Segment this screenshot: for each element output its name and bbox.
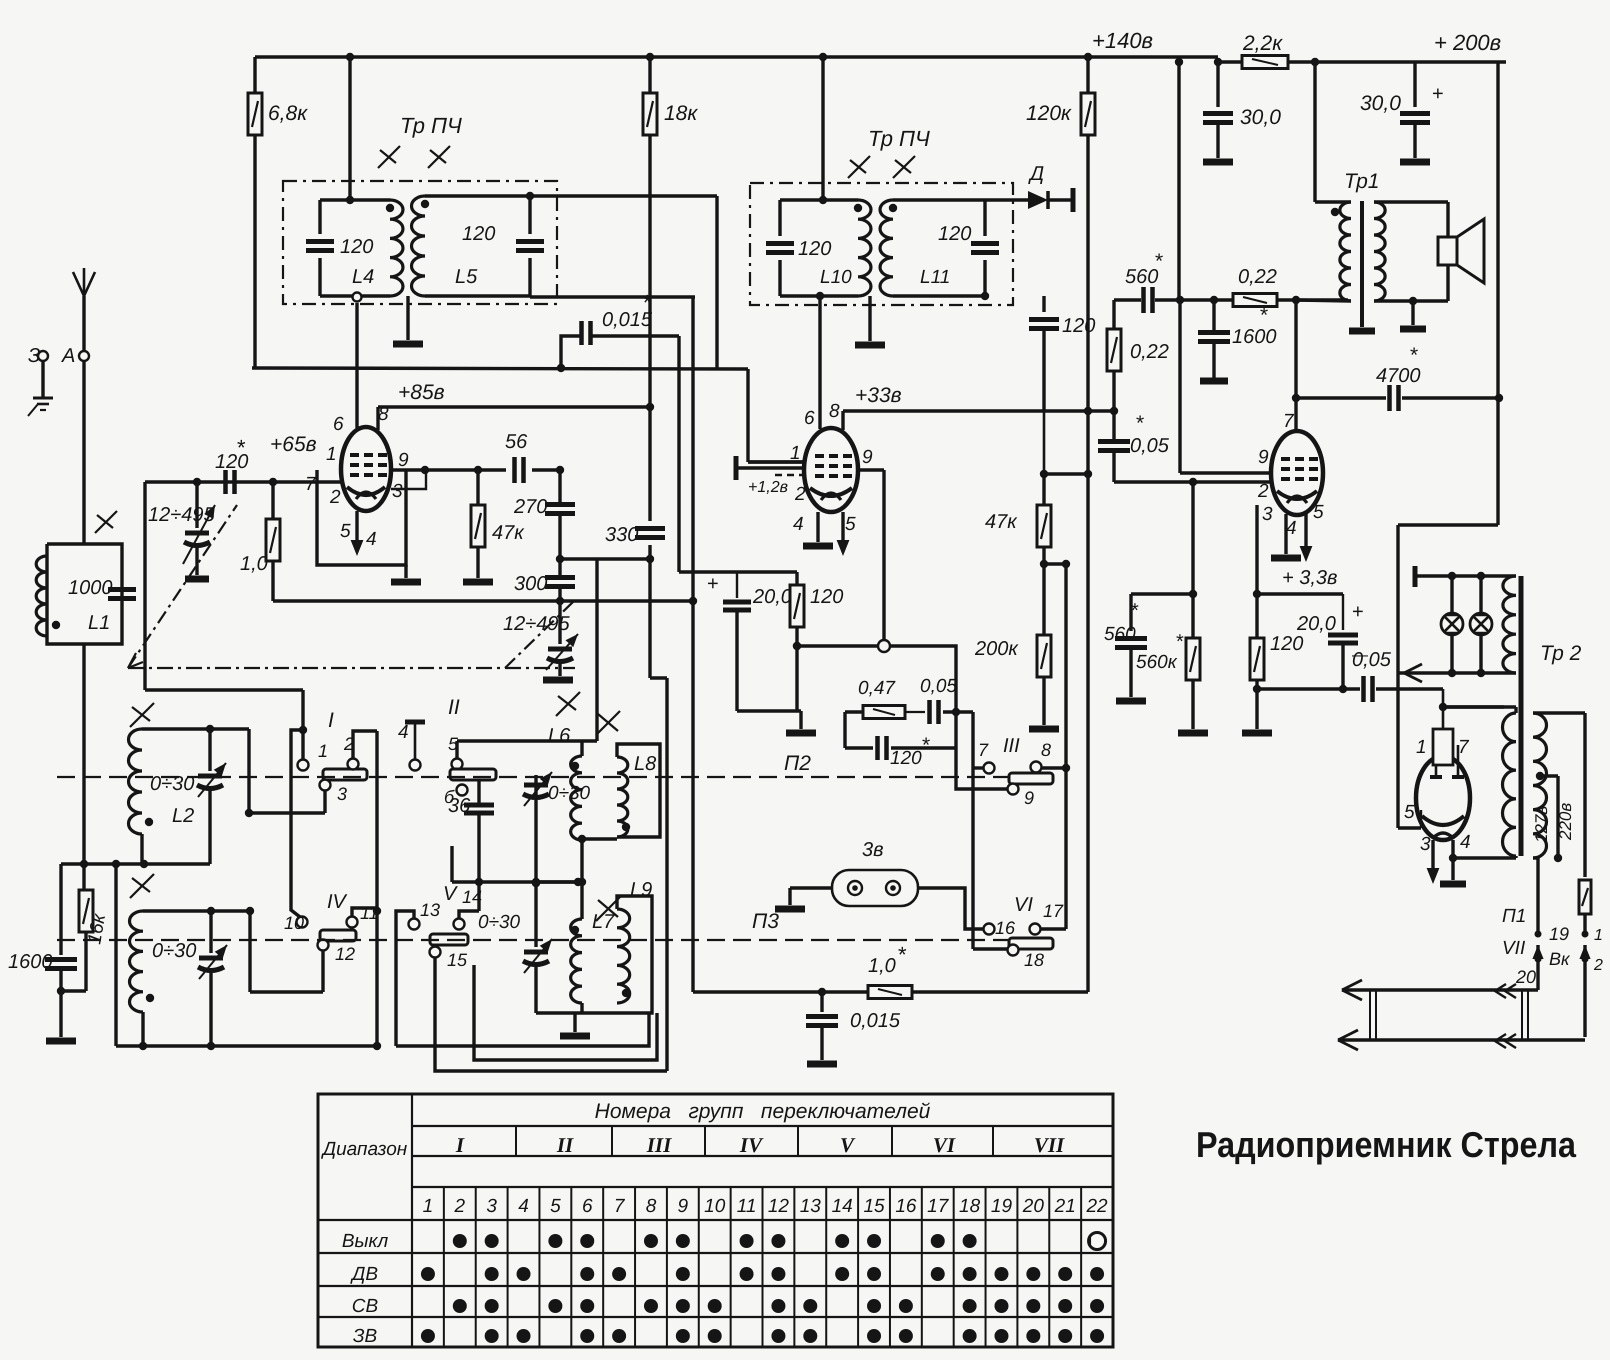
wire right edge down (1496, 62, 1499, 398)
svg-text:L8: L8 (634, 753, 656, 775)
wire Tr2 primary bottom (1453, 856, 1516, 859)
svg-text:V: V (443, 883, 458, 905)
table special mark col22 (1089, 1233, 1106, 1250)
wire cathode bottom y=689 (1257, 687, 1343, 690)
capacitor 330 in AGC drop (648, 408, 651, 521)
wire grid feed (1442, 689, 1445, 729)
svg-text:18: 18 (959, 1196, 981, 1217)
svg-text:Номера групп переключателе: Номера групп переключателей (595, 1100, 931, 1123)
svg-text:*: * (1131, 600, 1139, 622)
wire +85v line (378, 405, 650, 408)
wire 560 line y=300 (1114, 298, 1141, 301)
svg-text:20,0: 20,0 (752, 586, 792, 608)
wire wiper to 0,47 (890, 646, 956, 712)
svg-text:1: 1 (318, 741, 328, 761)
wire 0,22h to 4700 riser (1294, 300, 1297, 398)
svg-text:2: 2 (1593, 957, 1603, 974)
svg-text:П1: П1 (1502, 906, 1526, 927)
switch gang dashed line P2 (57, 776, 1008, 778)
svg-text:56: 56 (505, 431, 528, 453)
wire Tr1 secondary top to speaker (1374, 200, 1448, 203)
tube1 plate line with cap 56 (391, 468, 506, 471)
svg-text:1: 1 (423, 1196, 434, 1217)
wire L5 top to tube2 grid (530, 194, 717, 197)
svg-text:19: 19 (991, 1196, 1013, 1217)
capacitor 120* parallel (845, 746, 873, 749)
table horizontal lines (412, 1125, 1113, 1127)
svg-text:0÷30: 0÷30 (478, 912, 521, 933)
svg-text:17: 17 (1043, 901, 1064, 921)
trimmer arrows IFT2 (848, 156, 870, 178)
svg-text:560: 560 (1125, 266, 1158, 288)
coil L3 (130, 911, 144, 1012)
resistor 0,22 horizontal (1233, 294, 1277, 307)
capacitor 120* grid (223, 470, 228, 494)
svg-text:9: 9 (678, 1196, 689, 1217)
svg-text:6: 6 (804, 408, 815, 429)
svg-text:Выкл: Выкл (342, 1231, 389, 1252)
wire heater drop to tube4 pin5 (1396, 525, 1399, 828)
plug cable left (1369, 990, 1371, 1040)
cathode arrow tube2 (841, 512, 844, 550)
ground IFT1 (406, 296, 409, 340)
svg-text:VII: VII (1502, 938, 1526, 959)
svg-text:19: 19 (1549, 924, 1569, 944)
wire tube4 pin3 arrow (1431, 840, 1434, 878)
svg-text:3: 3 (1262, 504, 1273, 525)
svg-text:120: 120 (810, 586, 843, 608)
svg-text:1,0: 1,0 (240, 553, 268, 575)
plug line top (1342, 988, 1538, 991)
wire tube4 pin4 ground (1451, 840, 1454, 858)
wire 474 to 1088 (1044, 472, 1088, 475)
coil Tr1 secondary (1374, 202, 1385, 301)
ground Tr1 secondary (1411, 301, 1414, 325)
svg-text:0,22: 0,22 (1238, 266, 1277, 288)
wire wiper left (797, 644, 878, 647)
tube2 cathode ground (816, 512, 819, 542)
svg-text:0,015: 0,015 (850, 1010, 901, 1032)
svg-text:L5: L5 (455, 266, 478, 288)
svg-text:120: 120 (890, 748, 922, 769)
L3 tank top (143, 909, 250, 912)
resistor 6.8k (253, 57, 256, 93)
terminal bar heater line (1413, 566, 1418, 587)
svg-text:2: 2 (1257, 481, 1269, 502)
wire 1179 drop to 560 line (1177, 57, 1180, 300)
capacitor 560* grid (1129, 594, 1132, 631)
coil L2 (129, 729, 143, 834)
svg-text:*: * (1155, 250, 1163, 273)
svg-text:7: 7 (1283, 411, 1295, 432)
diagonal to trimmer2 (505, 600, 575, 668)
wiper terminal circle (878, 640, 890, 652)
junction grid (269, 478, 277, 486)
svg-text:Диапазон: Диапазон (321, 1139, 408, 1160)
svg-text:8: 8 (829, 401, 840, 422)
svg-text:Тр1: Тр1 (1344, 170, 1380, 193)
wire pin3 down (323, 791, 326, 813)
tube4 cathode arc (1422, 816, 1464, 825)
wire grid line to Tr2 (1443, 705, 1504, 708)
svg-text:13: 13 (800, 1196, 822, 1217)
table dots (453, 1234, 467, 1248)
svg-text:11: 11 (360, 903, 379, 923)
svg-text:47к: 47к (985, 511, 1018, 533)
connector arrows vk (1532, 945, 1543, 959)
resistor 1,0 grid leak (271, 482, 274, 520)
wire 0,015 right drop (677, 336, 680, 572)
capacitor 300 (558, 559, 561, 576)
svg-text:5: 5 (845, 514, 856, 535)
wire L1 bottom down (82, 644, 85, 864)
svg-text:4: 4 (793, 514, 804, 535)
ground bias (799, 711, 802, 729)
coil L1 box (47, 544, 122, 644)
coil L6 (571, 756, 582, 840)
wire IFT1 bottom right drop (530, 295, 695, 298)
svg-text:СВ: СВ (352, 1296, 379, 1317)
svg-text:1: 1 (1594, 927, 1603, 944)
svg-text:+: + (1352, 601, 1364, 623)
svg-text:*: * (922, 734, 930, 757)
svg-text:6,8к: 6,8к (268, 102, 308, 125)
coil L5 (425, 194, 530, 197)
svg-text:VII: VII (1034, 1133, 1065, 1157)
wire AGC drop to switches (648, 559, 651, 678)
capacitor 1600* to chassis (1212, 300, 1215, 330)
resistor 120 cathode (1250, 638, 1264, 680)
svg-text:330: 330 (605, 524, 638, 546)
capacitor 0,015 top (561, 336, 581, 368)
tuning gang dash-dot line (128, 667, 575, 669)
svg-text:120: 120 (798, 238, 831, 260)
trimmer cross L1 (95, 511, 117, 533)
ground tube3 pin4 (1284, 514, 1287, 554)
cathode arrow tube1 (355, 511, 358, 550)
svg-text:2: 2 (794, 484, 806, 505)
svg-text:127в: 127в (1532, 806, 1551, 843)
svg-text:120к: 120к (1026, 102, 1072, 125)
wire L6 bottom joins (580, 840, 583, 919)
wire tube1 pin6 to L4 (355, 303, 358, 428)
svg-text:20,0: 20,0 (1296, 613, 1336, 635)
wire Tr1 primary feed (1313, 62, 1316, 202)
ground 1600 (46, 1038, 76, 1045)
svg-text:+33в: +33в (855, 384, 902, 407)
plug cable right (1521, 990, 1523, 1040)
svg-text:Тр 2: Тр 2 (1540, 642, 1582, 665)
capacitor 0,05 series (927, 700, 932, 724)
L3 trimmer 0-30 (209, 911, 212, 953)
svg-text:1: 1 (326, 444, 337, 465)
svg-text:8: 8 (1041, 740, 1051, 760)
wire feedback from +200v rail (1496, 398, 1499, 525)
svg-text:III: III (1003, 735, 1020, 757)
svg-text:V: V (840, 1133, 856, 1157)
svg-text:П3: П3 (752, 910, 779, 933)
wire L11 cap drop junction (1040, 470, 1048, 478)
wire mains bottom (1533, 856, 1538, 859)
capacitor 1600 AA (59, 864, 62, 955)
wire top +140v bus (255, 55, 1218, 58)
svg-text:VI: VI (1014, 894, 1033, 916)
resistor 16k (82, 864, 85, 891)
plug line bottom (1338, 1038, 1585, 1041)
svg-text:5: 5 (340, 521, 351, 542)
wire tube1 pin8 to +85v (376, 407, 379, 430)
tube U2 heptode IF (804, 428, 858, 512)
trimmer cross L6 (556, 692, 580, 716)
coil Tr2 heater winding (1503, 576, 1516, 673)
svg-text:21: 21 (1054, 1196, 1076, 1217)
svg-text:L11: L11 (920, 267, 950, 288)
tube U3 IF/AF amp (1271, 431, 1323, 515)
svg-text:12: 12 (335, 944, 355, 964)
wire heater top (1415, 574, 1516, 577)
svg-text:3: 3 (392, 481, 403, 502)
wire grid return top (737, 570, 797, 573)
tube U1 pentode converter (341, 427, 391, 511)
svg-text:Тр ПЧ: Тр ПЧ (868, 126, 930, 151)
speaker (1438, 237, 1457, 265)
svg-text:18: 18 (1024, 950, 1044, 970)
ground Tr1 core (1349, 328, 1375, 335)
wire III pin8 to VI pin17 riser (1042, 766, 1066, 769)
resistor 1,0* (868, 986, 912, 999)
wire L2 top drop to band line (247, 729, 250, 813)
svg-text:+85в: +85в (398, 381, 445, 404)
wire pin11 to riser (352, 908, 377, 916)
svg-text:9: 9 (1258, 447, 1269, 468)
coil Tr1 primary (1340, 202, 1351, 301)
svg-text:3в: 3в (862, 839, 884, 861)
wire pin3 jog (391, 470, 426, 489)
svg-text:0÷30: 0÷30 (152, 940, 196, 962)
capacitor 0,05 coupling (1343, 687, 1360, 690)
wire III pin7 drop to VI pin18 (971, 712, 974, 949)
svg-text:ЗВ: ЗВ (353, 1326, 378, 1347)
wire left riser to bottom bus (114, 864, 117, 1046)
svg-text:18к: 18к (664, 102, 698, 125)
svg-text:7: 7 (305, 474, 317, 495)
wire +33v line (843, 409, 1114, 412)
wire antenna down (82, 362, 85, 544)
table column lines (443, 1187, 445, 1347)
terminal L4 bottom to tube1 pin6 (353, 293, 362, 302)
svg-text:7: 7 (1458, 737, 1470, 758)
trimmer cross L8 (596, 711, 620, 735)
ground symbol antenna (33, 397, 53, 400)
antenna mast (82, 296, 85, 350)
svg-text:0÷30: 0÷30 (548, 783, 591, 804)
wire 0,47 row (845, 710, 862, 713)
svg-text:*: * (1410, 344, 1418, 367)
L2 tank top (142, 727, 210, 730)
wire pin1 riser (301, 690, 304, 759)
svg-text:Д: Д (1028, 163, 1044, 185)
svg-text:+65в: +65в (270, 433, 317, 456)
svg-text:IV: IV (739, 1133, 764, 1157)
coil L7 (571, 919, 582, 1003)
L2 trimmer 0-30 (208, 729, 211, 771)
wire pin2 to long riser (353, 731, 377, 758)
grid T-bar tube2 (734, 456, 739, 480)
svg-text:20: 20 (1022, 1196, 1045, 1217)
svg-text:220в: 220в (1556, 803, 1575, 841)
wire +200v segment with 2.2k (1218, 60, 1243, 63)
wire L3 to switch IV pin12 riser (248, 911, 251, 992)
wire L2 top to corner (210, 727, 249, 730)
svg-text:II: II (448, 696, 460, 719)
svg-text:Вк: Вк (1549, 949, 1571, 969)
wire tube2 pin6 to L10 (818, 296, 821, 429)
wire y=559 AVC node (560, 557, 650, 560)
tube U4 output (1416, 756, 1470, 840)
wire pin10 riser (291, 730, 303, 917)
svg-text:3: 3 (337, 784, 347, 804)
resistor 47k (476, 470, 479, 505)
svg-text:1: 1 (1416, 737, 1427, 758)
wire Tr1 secondary bottom (1374, 299, 1448, 302)
svg-text:20: 20 (1515, 967, 1536, 987)
tap 127v (1536, 772, 1544, 780)
wire 593 node line (1131, 592, 1193, 595)
svg-text:22: 22 (1085, 1196, 1108, 1217)
core Tr2 (1519, 576, 1524, 856)
svg-text:13: 13 (420, 900, 440, 920)
svg-text:2,2к: 2,2к (1242, 32, 1283, 55)
svg-text:5: 5 (1313, 502, 1324, 523)
svg-text:1600: 1600 (8, 951, 53, 973)
svg-text:А: А (61, 345, 75, 367)
wire y=601 line (273, 599, 695, 602)
wire riser 33v to 1,0* (1086, 411, 1089, 992)
dashed box IF transformer 1 (283, 181, 557, 304)
svg-text:4: 4 (366, 529, 377, 550)
svg-text:5: 5 (550, 1196, 561, 1217)
resistor 18k (648, 57, 651, 93)
ground osc tanks (573, 1013, 576, 1032)
svg-text:*: * (1260, 304, 1268, 327)
svg-text:200к: 200к (974, 638, 1019, 660)
wire IFT2 feed from bus (821, 57, 824, 200)
svg-text:0,05: 0,05 (1130, 435, 1170, 457)
coil Tr2 primary (1503, 713, 1517, 856)
wire pin2 line (1114, 480, 1272, 483)
svg-text:560к: 560к (1136, 652, 1178, 673)
wire tube2 pin8 to +33v (841, 411, 844, 430)
svg-text:270: 270 (513, 496, 547, 518)
lamp 3v rounded box (832, 870, 918, 906)
wire 564 node (1044, 562, 1066, 565)
svg-text:5: 5 (1404, 802, 1415, 823)
wire bottom loop 3 (435, 958, 667, 1071)
lamp L left (1450, 576, 1453, 613)
wire 0,05 to III pin7 riser (943, 710, 973, 713)
capacitor 4700 (1296, 396, 1386, 399)
coil L10 (780, 198, 858, 201)
svg-text:П2: П2 (784, 752, 811, 775)
svg-text:*: * (898, 942, 907, 967)
svg-text:II: II (556, 1133, 574, 1157)
wire pin12 drop (321, 951, 324, 992)
trimmer cross L9 (596, 897, 620, 921)
svg-text:L4: L4 (352, 266, 374, 288)
wire 0,22/0,05 column (1112, 411, 1115, 439)
wire +65v line (252, 368, 748, 369)
svg-text:30,0: 30,0 (1360, 92, 1401, 115)
wire band y=813 (249, 811, 325, 814)
connector pins 19 (1535, 931, 1542, 938)
wire tube2 grid2 box (748, 460, 804, 463)
wire band line y=690 (145, 688, 303, 691)
svg-text:+ 200в: + 200в (1434, 30, 1501, 55)
resistor 0,22 vertical (1112, 300, 1115, 330)
svg-text:9: 9 (1024, 788, 1034, 808)
tuning gang diagonal (128, 505, 237, 668)
wire cathode node to 120 (1255, 594, 1258, 639)
fuse resistor right (1583, 875, 1586, 878)
wire lamp right (918, 888, 983, 929)
wire bottom loop 1 (396, 1013, 649, 1046)
svg-text:30,0: 30,0 (1240, 106, 1281, 129)
coil L9 (617, 909, 630, 1003)
svg-text:+ 3,3в: + 3,3в (1282, 567, 1337, 589)
capacitor 30.0 right (1413, 62, 1416, 107)
svg-text:10: 10 (284, 913, 304, 933)
wire lamp left (790, 886, 832, 889)
grid dashes into tube2 (775, 474, 803, 476)
svg-text:Радиоприемник Стрела: Радиоприемник Стрела (1196, 1124, 1577, 1165)
svg-text:16: 16 (895, 1196, 917, 1217)
svg-text:300: 300 (514, 573, 547, 595)
svg-text:+: + (707, 573, 719, 595)
wire mains top (1533, 711, 1585, 714)
trimmer cross L2 (130, 703, 154, 727)
capacitor 30.0 left (1216, 62, 1219, 107)
svg-text:*: * (1136, 412, 1144, 435)
resistor 2.2k (1242, 56, 1288, 69)
svg-text:120: 120 (938, 223, 971, 245)
svg-text:3: 3 (1420, 834, 1431, 855)
lamp R right (1479, 576, 1482, 613)
wire tube3 pin7 riser (1294, 398, 1297, 432)
svg-text:560: 560 (1104, 624, 1136, 645)
svg-text:*: * (237, 435, 246, 460)
svg-text:I: I (455, 1133, 465, 1157)
table frame (318, 1094, 1113, 1347)
trimmer 0-30 osc1 (534, 775, 537, 883)
wire y=992 net (691, 601, 694, 992)
svg-text:9: 9 (862, 447, 873, 468)
svg-text:1000: 1000 (68, 577, 113, 599)
capacitor 270 (558, 470, 561, 503)
wire L6 bottom to L8 frame (582, 837, 617, 840)
svg-text:L6: L6 (548, 725, 571, 747)
wire pin5 riser (455, 741, 458, 758)
svg-text:0,47: 0,47 (858, 678, 896, 699)
junction 65v (557, 364, 565, 372)
resistor 120k (1086, 57, 1089, 93)
wire L7 bottom (534, 965, 537, 1013)
resistor 560k* (1191, 594, 1194, 639)
svg-text:ДВ: ДВ (350, 1264, 378, 1285)
bottom bus (116, 1044, 377, 1047)
svg-text:36: 36 (448, 795, 471, 817)
wire tube1 grid line (145, 480, 342, 483)
resistor 200k (1042, 564, 1045, 635)
